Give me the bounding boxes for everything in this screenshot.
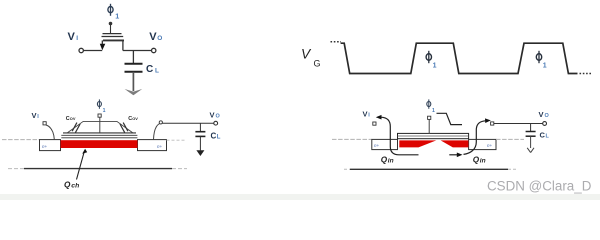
label Cov (right) (128, 116, 138, 122)
substrate surface dashed (left part) (332, 138, 372, 140)
wire to ground (right figure) (530, 136, 532, 148)
svg-text:OV: OV (70, 116, 76, 121)
svg-text:V: V (539, 110, 544, 119)
transistor M1 channel bar (103, 39, 124, 41)
label Vi (right figure) (363, 110, 371, 119)
Vi terminal square (43, 122, 46, 125)
ground (arrow) (125, 89, 143, 95)
Vi terminal square (right figure) (373, 122, 376, 125)
drain wire down (122, 40, 124, 50)
svg-text:ch: ch (71, 183, 79, 190)
trailing dots (580, 73, 592, 75)
svg-text:1: 1 (433, 63, 437, 70)
svg-text:Q: Q (64, 181, 71, 190)
svg-text:Q: Q (381, 155, 388, 164)
label Qin (left) (381, 155, 394, 164)
svg-text:V: V (32, 111, 37, 120)
label Cov (left) (66, 116, 76, 122)
surface dashed right of drain (right figure) (496, 138, 524, 140)
capacitor CL plates (right figure) (526, 131, 536, 133)
wire: capacitor to ground (132, 72, 134, 91)
svg-text:V: V (210, 111, 215, 120)
terminal Vi (open circle) (79, 48, 83, 52)
Vo terminal square (right figure) (491, 122, 494, 125)
label Qin (right) (473, 155, 486, 164)
label CL (left figure) (211, 132, 221, 141)
drain n+ region (right figure) (469, 139, 496, 149)
transistor M1 gate lower bar (102, 36, 124, 38)
wire: drain to Vo terminal (123, 50, 152, 52)
wire: terminal to Vo (162, 122, 213, 124)
label Vo (right figure) (539, 110, 550, 119)
svg-text:L: L (217, 135, 221, 141)
label phi1 (second pulse) (536, 51, 547, 70)
terminal Vo (open circle) (152, 48, 156, 52)
label CL (right figure) (540, 131, 550, 140)
svg-text:O: O (216, 114, 221, 120)
svg-text:1: 1 (115, 11, 119, 20)
svg-text:O: O (157, 35, 162, 42)
overlap cap Cov ticks (right) (120, 123, 128, 133)
leading dots (331, 41, 342, 43)
right charge flow arrow (horizontal) (449, 153, 462, 158)
capacitor CL bottom plate (125, 71, 143, 73)
Qch pointer arrow (77, 149, 88, 180)
overlap cap Cov ticks (left) (72, 123, 80, 133)
label Qch (64, 181, 79, 190)
gate electrode (right figure) (398, 133, 469, 138)
svg-text:Q: Q (473, 155, 480, 164)
wire: Vi square to source (46, 125, 55, 139)
gate node dot (109, 22, 113, 26)
wire: square to Vo (494, 123, 543, 125)
svg-text:n+: n+ (374, 143, 380, 148)
svg-text:C: C (146, 64, 153, 75)
label CL (146, 64, 159, 75)
wire: drain to terminal curve (154, 124, 160, 140)
phi1 label (gate, left figure) (97, 99, 105, 113)
svg-text:n+: n+ (487, 143, 493, 148)
ground arrow (filled, left figure) (196, 150, 204, 156)
clock falling edge icon (437, 113, 463, 124)
channel charge right wedge (red) (441, 140, 469, 147)
label Vo (left figure) (210, 111, 221, 120)
wire: square to gate (428, 119, 430, 133)
right charge flow curve (to Vo) (464, 118, 491, 154)
source arrow of M1 (100, 44, 106, 51)
waveform trace (341, 43, 578, 73)
left charge flow arrow (hairpin to Vi) (376, 115, 419, 155)
svg-text:V: V (68, 31, 76, 43)
ground arrow (open, right figure) (527, 148, 534, 153)
svg-text:V: V (149, 31, 157, 43)
svg-text:L: L (155, 67, 159, 74)
wire: junction to capacitor CL (132, 51, 134, 64)
svg-text:1: 1 (432, 108, 435, 114)
svg-text:1: 1 (103, 108, 106, 114)
label VG (301, 46, 321, 68)
dashed surface right of drain (167, 139, 186, 141)
drain small terminal (159, 121, 162, 124)
terminal Vo (open circle, left figure) (214, 121, 218, 125)
wire to ground (199, 136, 201, 150)
channel charge left wedge (red) (399, 140, 436, 147)
svg-text:O: O (545, 113, 550, 119)
svg-text:C: C (211, 132, 217, 141)
svg-text:OV: OV (132, 116, 138, 121)
wire: dot to gate (110, 24, 112, 34)
gate contact outline (trapezoid) (67, 121, 132, 132)
gate electrode stack (61, 133, 137, 138)
terminal Vo open circle (right figure) (543, 122, 547, 126)
svg-text:G: G (314, 58, 321, 68)
wire: junction to CL (right figure) (530, 124, 532, 132)
svg-text:1: 1 (543, 63, 547, 70)
substrate bottom line (right figure) (344, 168, 517, 170)
svg-text:in: in (480, 157, 486, 164)
label phi1 (first pulse) (426, 51, 437, 70)
svg-text:n+: n+ (157, 144, 163, 149)
label Vi (left figure) (32, 111, 40, 120)
label Vi (68, 31, 79, 43)
wire: gate square to gate (99, 117, 101, 133)
clock phi1 label (top) (108, 4, 119, 21)
substrate surface dashed line (left) (2, 139, 40, 141)
svg-text:V: V (363, 110, 368, 119)
source n+ region (right figure) (372, 139, 398, 149)
capacitor CL plates (left figure) (195, 131, 205, 133)
channel charge Qch (red) (61, 140, 138, 148)
wire: Vi terminal to source (83, 50, 102, 52)
source n+ region (40, 140, 61, 151)
transistor M1 gate bar (103, 33, 122, 35)
gate terminal square (right figure) (428, 116, 431, 119)
drain n+ region (138, 140, 167, 151)
svg-text:CSDN @Clara_D: CSDN @Clara_D (487, 178, 592, 193)
gate terminal square (98, 114, 101, 117)
substrate bottom line (8, 168, 187, 170)
label Vo (149, 31, 162, 43)
svg-text:in: in (388, 157, 394, 164)
phi1 label (right figure) (427, 99, 435, 113)
wire: junction to CL (199, 123, 201, 131)
svg-text:n+: n+ (42, 144, 48, 149)
bottom strip (0, 194, 600, 200)
svg-text:I: I (76, 35, 78, 42)
capacitor CL top plate (125, 63, 143, 65)
